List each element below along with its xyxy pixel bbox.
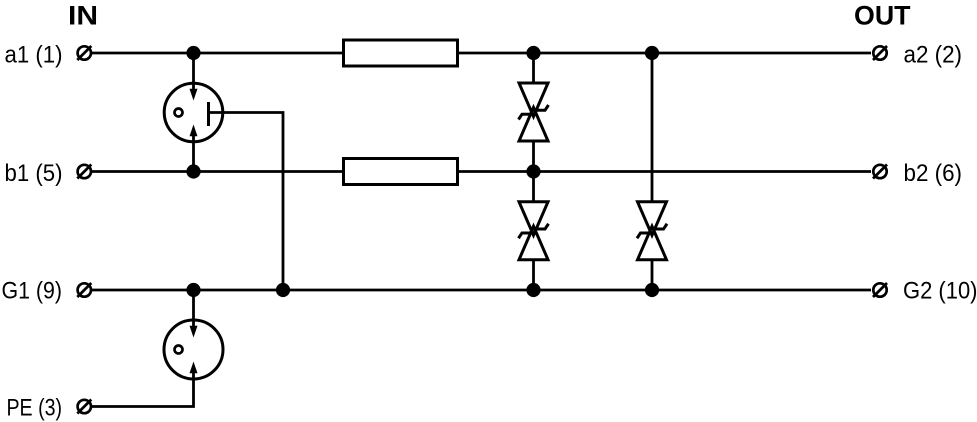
svg-text:G2 (10): G2 (10) (903, 278, 977, 305)
svg-text:a2 (2): a2 (2) (904, 42, 963, 69)
svg-text:a1 (1): a1 (1) (5, 42, 63, 69)
svg-text:b1 (5): b1 (5) (5, 160, 63, 187)
svg-text:b2 (6): b2 (6) (904, 160, 963, 187)
svg-text:OUT: OUT (854, 1, 911, 31)
svg-text:G1 (9): G1 (9) (2, 278, 63, 305)
svg-text:IN: IN (68, 1, 98, 31)
svg-text:PE (3): PE (3) (7, 394, 63, 421)
